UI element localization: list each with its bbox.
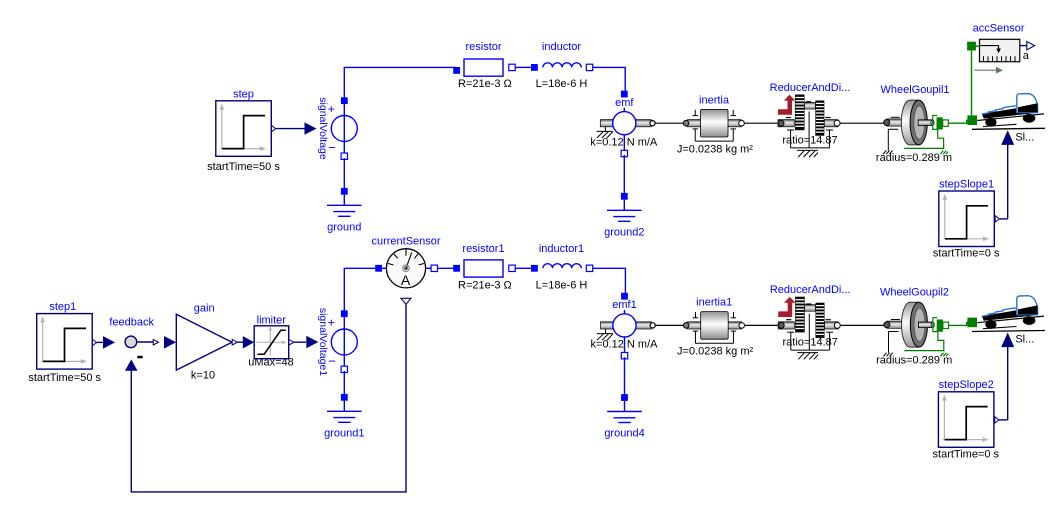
svg-text:step: step xyxy=(233,88,254,100)
svg-text:ReducerAndDi...: ReducerAndDi... xyxy=(770,82,851,94)
step source block stepSlope1 xyxy=(933,178,1008,259)
gearbox ReducerAndDifferential 2 xyxy=(770,284,851,359)
wire signalVoltage1 to ground1 xyxy=(343,371,345,395)
svg-text:k=10: k=10 xyxy=(191,370,215,382)
svg-text:ReducerAndDi...: ReducerAndDi... xyxy=(770,284,851,296)
svg-text:stepSlope1: stepSlope1 xyxy=(939,178,994,190)
ground2 xyxy=(604,193,644,238)
shaft wire inertia to reducer xyxy=(744,122,778,124)
wire currentSensor to resistor1 xyxy=(438,267,457,269)
accSensor connector square xyxy=(967,42,976,51)
ground1 xyxy=(324,394,364,439)
svg-text:L=18e-6 H: L=18e-6 H xyxy=(536,279,588,291)
shaft wire emf to inertia xyxy=(655,122,683,124)
step source block step1 xyxy=(28,301,101,384)
svg-text:inertia1: inertia1 xyxy=(696,297,732,309)
vehicle flange node 2 xyxy=(967,318,977,328)
svg-text:limiter: limiter xyxy=(257,314,287,326)
svg-text:startTime=50 s: startTime=50 s xyxy=(207,161,280,173)
inertia J=0.0238 xyxy=(677,94,753,155)
svg-text:emf: emf xyxy=(615,97,634,109)
voltage source signalVoltage1 xyxy=(317,308,358,376)
acceleration sensor accSensor xyxy=(973,23,1025,62)
svg-text:Sl...: Sl... xyxy=(1015,334,1034,346)
svg-text:WheelGoupil1: WheelGoupil1 xyxy=(880,84,949,96)
voltage source signalVoltage xyxy=(317,97,358,160)
wheel WheelGoupil1 xyxy=(876,84,952,164)
svg-text:ground2: ground2 xyxy=(604,226,644,238)
svg-text:feedback: feedback xyxy=(109,317,154,329)
emf1 motor xyxy=(591,293,659,359)
wire inductor to emf xyxy=(593,67,625,92)
svg-text:gain: gain xyxy=(194,302,215,314)
svg-text:ground: ground xyxy=(327,221,361,233)
wire signalVoltage1 to currentSensor xyxy=(344,268,375,313)
svg-text:emf1: emf1 xyxy=(612,299,636,311)
wire limiter to signalVoltage1 xyxy=(289,336,318,348)
limiter uMax=48 xyxy=(248,314,294,368)
step source block step xyxy=(207,88,280,173)
inertia1 J=0.0238 xyxy=(677,297,753,358)
feedback loop wire xyxy=(131,304,406,492)
svg-text:A: A xyxy=(401,272,411,288)
svg-text:inductor: inductor xyxy=(542,41,581,53)
svg-text:radius=0.289 m: radius=0.289 m xyxy=(876,152,952,164)
wire step1 to feedback xyxy=(97,336,116,349)
svg-text:startTime=50 s: startTime=50 s xyxy=(28,372,101,384)
shaft wire reducer to wheel 2 xyxy=(840,324,883,326)
summing junction feedback xyxy=(109,317,154,359)
shaft wire reducer to wheel xyxy=(840,122,883,124)
shaft wire emf1 to inertia1 xyxy=(655,324,683,326)
green wire wheel2 to vehicle flange xyxy=(948,323,967,326)
svg-text:+: + xyxy=(328,316,335,330)
svg-text:ratio=14.87: ratio=14.87 xyxy=(783,337,838,349)
svg-text:+: + xyxy=(328,102,335,116)
inductor L=18e-6 xyxy=(531,41,593,90)
svg-text:ground1: ground1 xyxy=(324,427,364,439)
svg-text:inductor1: inductor1 xyxy=(539,243,584,255)
green wire vehicle to accSensor xyxy=(972,46,980,115)
svg-text:J=0.0238 kg m²: J=0.0238 kg m² xyxy=(677,346,753,358)
svg-text:J=0.0238 kg m²: J=0.0238 kg m² xyxy=(677,144,753,156)
inductor1 L=18e-6 xyxy=(531,243,593,291)
svg-text:startTime=0 s: startTime=0 s xyxy=(933,448,1000,460)
svg-text:WheelGoupil2: WheelGoupil2 xyxy=(880,286,949,298)
ammeter currentSensor xyxy=(371,235,440,288)
wire inductor1 to emf1 xyxy=(593,268,626,294)
svg-text:k=0.12 N m/A: k=0.12 N m/A xyxy=(591,339,659,351)
gain k=10 xyxy=(176,302,232,381)
green wire wheel to vehicle flange xyxy=(948,120,968,123)
vehicle truck 1 xyxy=(972,94,1045,144)
wire step to signalVoltage with arrowhead xyxy=(276,122,317,134)
wire emf1 to ground4 xyxy=(624,357,626,395)
vehicle flange node xyxy=(967,115,977,125)
svg-text:radius=0.289 m: radius=0.289 m xyxy=(876,354,952,366)
slope input arrow into vehicle 2 xyxy=(1001,333,1014,420)
wire resistor to inductor xyxy=(516,66,532,68)
wire gain to limiter xyxy=(232,336,254,348)
resistor1 R=21e-3 xyxy=(453,243,515,291)
svg-text:a: a xyxy=(1023,50,1030,62)
svg-text:−: − xyxy=(328,354,336,369)
wheel WheelGoupil2 xyxy=(876,286,952,366)
wire resistor1 to inductor1 xyxy=(516,267,532,269)
svg-text:k=0.12 N m/A: k=0.12 N m/A xyxy=(590,137,658,149)
svg-text:step1: step1 xyxy=(49,301,76,313)
feedback loop arrowhead xyxy=(125,359,138,370)
currentSensor output triangle xyxy=(401,298,411,304)
svg-text:R=21e-3 Ω: R=21e-3 Ω xyxy=(458,78,512,90)
svg-text:ratio=14.87: ratio=14.87 xyxy=(782,134,837,146)
svg-text:−: − xyxy=(328,140,336,155)
slope input arrow into vehicle 1 xyxy=(1001,130,1014,219)
svg-text:L=18e-6 H: L=18e-6 H xyxy=(536,78,588,90)
gearbox ReducerAndDifferential 1 xyxy=(770,82,851,157)
svg-text:inertia: inertia xyxy=(699,94,730,106)
accSensor output a xyxy=(1020,42,1035,63)
wire feedback to gain xyxy=(137,336,176,349)
resistor R=21e-3 xyxy=(453,41,515,90)
wire signalVoltage to resistor xyxy=(344,67,456,100)
svg-text:currentSensor: currentSensor xyxy=(371,235,440,247)
svg-text:startTime=0 s: startTime=0 s xyxy=(933,248,1000,260)
svg-text:resistor: resistor xyxy=(465,41,501,53)
svg-text:resistor1: resistor1 xyxy=(462,243,504,255)
svg-text:ground4: ground4 xyxy=(604,428,644,440)
ground4 xyxy=(604,394,644,439)
svg-text:accSensor: accSensor xyxy=(973,23,1025,35)
svg-text:R=21e-3 Ω: R=21e-3 Ω xyxy=(458,279,512,291)
direction arrow xyxy=(974,67,1003,74)
vehicle truck 2 xyxy=(972,296,1045,346)
step source block stepSlope2 xyxy=(933,379,1008,460)
svg-text:Sl...: Sl... xyxy=(1015,131,1034,143)
wire signalVoltage to ground xyxy=(343,158,345,189)
shaft wire inertia1 to reducer 2 xyxy=(745,324,779,326)
emf motor xyxy=(590,91,658,157)
ground xyxy=(327,188,362,233)
svg-text:stepSlope2: stepSlope2 xyxy=(939,379,994,391)
svg-text:uMax=48: uMax=48 xyxy=(248,356,294,368)
wire emf to ground2 xyxy=(623,155,625,194)
